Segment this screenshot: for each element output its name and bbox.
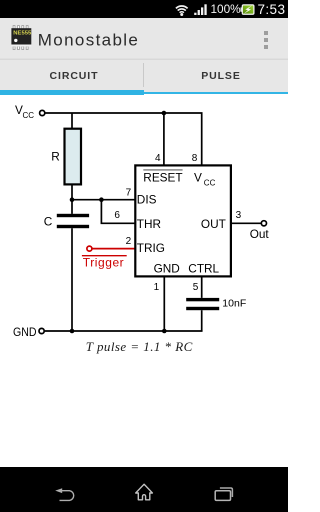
battery percent text [210,0,242,18]
action bar bottom shadow [0,58,288,61]
junction dot resistor/cap [70,197,75,202]
svg-text:10nF: 10nF [222,298,246,310]
IC U1 NE555 timer body [135,165,231,276]
status bar [0,0,288,18]
overflow menu dots [264,31,268,35]
wire pin4 drop [163,113,165,165]
wire trigger to pin 2 (red) [92,248,135,250]
svg-text:Monostable: Monostable [38,31,139,50]
svg-text:5: 5 [193,282,199,293]
svg-text:100%: 100% [211,2,242,16]
trigger overline (red) [82,255,127,257]
svg-text:DIS: DIS [137,193,157,207]
wire 10nF bottom to rail [201,310,203,331]
nav home button [134,483,154,501]
junction dot THR branch [99,197,104,202]
wire pin 1 GND drop [163,276,165,331]
svg-text:7: 7 [126,187,132,198]
capacitor C2 10nF plates [186,298,219,301]
svg-text:2: 2 [126,236,132,247]
svg-text:3: 3 [236,210,242,221]
tab label PULSE [149,70,293,82]
wire VCC rail to pin 8 [45,113,202,165]
terminal VCC [40,110,45,115]
pin label VCC [194,170,216,187]
svg-text:GND: GND [154,262,180,276]
svg-text:7:53: 7:53 [258,2,286,17]
svg-text:NE555: NE555 [13,31,32,37]
wifi icon [175,4,189,16]
junction dot C/rail [70,329,75,334]
svg-text:TRIG: TRIG [137,241,165,255]
svg-text:V: V [194,170,202,184]
svg-text:CC: CC [23,111,35,120]
terminal Trigger (red) [87,246,92,251]
wire resistor bottom [71,185,73,214]
svg-text:4: 4 [155,153,161,164]
app icon NE555 chip [10,24,34,51]
svg-text:8: 8 [192,153,198,164]
svg-text:T pulse = 1.1 * RC: T pulse = 1.1 * RC [86,339,193,354]
wire pin 5 CTRL drop [201,276,203,298]
terminal Out [261,221,266,226]
wire ground rail [45,330,203,332]
wire to pin 7 DIS [72,199,135,201]
svg-text:6: 6 [114,210,120,221]
svg-text:RESET: RESET [143,170,182,184]
navigation bar [0,467,288,512]
svg-text:CC: CC [204,178,216,187]
app title [37,28,147,52]
capacitor C plates [57,214,89,217]
svg-text:Out: Out [250,227,270,241]
node VCC label [15,103,34,120]
RESET overline [143,169,182,171]
signal bars icon [194,4,207,15]
clock text [257,0,288,18]
thick blue underline for selected tab [0,90,144,95]
circuit schematic [0,94,288,467]
junction dot at pin4 branch [162,111,167,116]
wire cap bottom to ground rail [71,228,73,331]
svg-text:C: C [44,214,53,228]
svg-text:OUT: OUT [201,217,226,231]
svg-text:CTRL: CTRL [188,262,219,276]
svg-text:R: R [51,149,60,163]
wire VCC rail to resistor top [71,113,73,129]
tab label CIRCUIT [2,70,146,82]
svg-text:GND: GND [13,325,37,339]
nav back button [52,485,76,503]
terminal GND [39,328,44,333]
svg-text:THR: THR [137,217,161,231]
svg-text:Trigger: Trigger [83,255,124,269]
wire to pin 6 THR [101,200,135,224]
junction dot pin1/rail [162,329,167,334]
tab bar [0,60,288,92]
wire pin 3 output [232,222,262,224]
action bar [0,18,288,60]
svg-text:1: 1 [154,282,160,293]
thin blue strip under both tabs [0,92,288,94]
battery icon [240,4,255,15]
tab divider [143,63,144,87]
resistor R [65,129,82,185]
nav recents button [213,486,235,502]
